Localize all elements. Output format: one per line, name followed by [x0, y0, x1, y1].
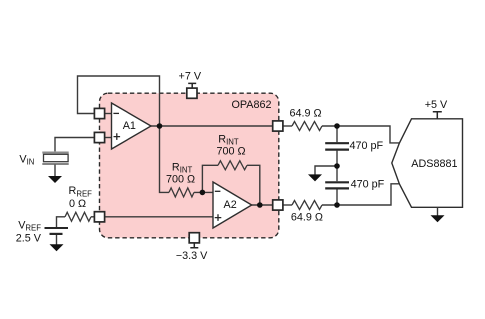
wire plus pin stub to A1 — [105, 137, 111, 139]
svg-text:+7 V: +7 V — [179, 71, 202, 83]
VREF ground — [56, 235, 58, 245]
svg-text:0 Ω: 0 Ω — [69, 198, 86, 210]
svg-text:OPA862: OPA862 — [231, 99, 271, 111]
op-amp A2 — [213, 182, 252, 228]
node top RC — [334, 123, 340, 129]
wire A2 feedback right — [247, 165, 260, 205]
svg-text:700 Ω: 700 Ω — [166, 173, 195, 185]
wire RREF to pin — [91, 216, 94, 218]
-3.3V supply — [190, 243, 198, 247]
wire between caps — [336, 151, 338, 182]
node A2 minus — [200, 190, 206, 196]
resistor 64.9 bottom zigzag — [292, 201, 322, 210]
svg-text:64.9 Ω: 64.9 Ω — [291, 211, 323, 223]
svg-text:470 pF: 470 pF — [350, 140, 384, 152]
op-amp A1 — [112, 103, 152, 149]
node A1 output — [157, 123, 163, 129]
ADS8881 ADC — [392, 119, 463, 208]
resistor RINT series zigzag — [169, 188, 194, 197]
svg-text:700 Ω: 700 Ω — [216, 145, 245, 157]
wire bottom pin to 64.9 — [283, 204, 292, 206]
VREF battery — [45, 227, 69, 229]
wire RINT to A2 minus — [194, 191, 213, 193]
wire bottom cap vertical — [336, 189, 338, 205]
node A2 output — [257, 202, 263, 208]
resistor 64.9 top zigzag — [292, 122, 322, 131]
wire mid ground branch — [315, 166, 337, 175]
capacitor C1 470pF top — [325, 143, 349, 149]
node bottom RC — [334, 202, 340, 208]
node cap midpoint — [334, 163, 340, 169]
svg-text:470 pF: 470 pF — [351, 178, 385, 190]
pin square VREF input — [94, 212, 104, 222]
resistor RINT feedback zigzag — [218, 161, 247, 170]
ADC ground — [437, 207, 439, 215]
pin square A1 minus — [94, 108, 104, 118]
svg-text:64.9 Ω: 64.9 Ω — [289, 108, 321, 120]
svg-text:A2: A2 — [224, 199, 237, 211]
VIN source symbol — [42, 152, 68, 154]
wire A1 output down to RINT — [160, 126, 170, 192]
pin square -3.3V — [189, 233, 199, 243]
wire top pin to 64.9 — [283, 125, 292, 127]
pin square +7V — [187, 88, 197, 98]
pin square A1 plus — [94, 132, 104, 142]
svg-text:ADS8881: ADS8881 — [411, 158, 457, 170]
wire 64.9 to ADC upper input — [322, 126, 399, 143]
wire VREF pin to A2 plus — [105, 216, 213, 218]
wire A1 feedback loop — [78, 76, 160, 126]
wire A2 feedback left — [202, 165, 218, 192]
VIN ground — [54, 165, 56, 177]
pin square bottom output — [273, 200, 283, 210]
OPA862 dashed box — [100, 93, 279, 238]
pin square top output — [273, 121, 283, 131]
capacitor C2 470pF bottom — [325, 182, 349, 188]
wire top cap vertical — [336, 126, 338, 142]
resistor RREF zigzag — [65, 212, 91, 221]
svg-text:+5 V: +5 V — [425, 99, 448, 111]
svg-text:−3.3 V: −3.3 V — [176, 250, 208, 262]
wire A1 output rail — [151, 125, 272, 127]
wire A2 output to pin — [252, 204, 273, 206]
mid ground — [308, 174, 322, 181]
svg-text:2.5 V: 2.5 V — [16, 233, 42, 245]
wire 64.9 to ADC lower input — [322, 184, 399, 205]
wire minus pin stub to A1 — [105, 113, 111, 115]
svg-text:A1: A1 — [123, 120, 136, 132]
wire VREF battery to RREF — [57, 217, 66, 228]
wire VIN to plus pin — [55, 138, 94, 152]
